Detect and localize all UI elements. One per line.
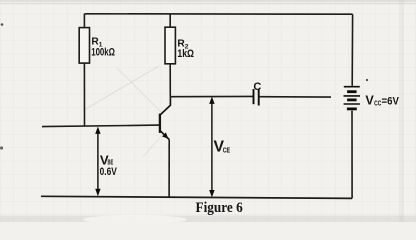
wire: R2 top lead <box>169 14 171 27</box>
wire: bottom rail <box>41 196 352 198</box>
wire: emitter to bottom rail <box>168 140 170 198</box>
svg-text:Figure 6: Figure 6 <box>196 200 243 216</box>
battery VCC (3 cells) <box>344 87 361 109</box>
wire: R1 top lead <box>83 14 85 28</box>
measurement arrow VCE (double-headed) <box>209 97 214 198</box>
svg-text:0.6V: 0.6V <box>100 166 118 178</box>
wire: top supply rail <box>84 13 352 15</box>
wire: right rail from top to battery positive <box>351 14 353 86</box>
wire: base wire <box>42 125 160 127</box>
resistor R1 <box>79 28 89 64</box>
svg-text:CE: CE <box>223 145 230 154</box>
measurement arrow VBE (double-headed) <box>95 127 100 197</box>
wire: collector node to capacitor <box>170 95 253 97</box>
wire: capacitor to output <box>259 96 331 98</box>
wire: R1 bottom lead to base node <box>83 63 85 126</box>
svg-text:=6V: =6V <box>382 96 399 108</box>
wire: battery negative to bottom rail <box>351 111 353 199</box>
svg-text:100kΩ: 100kΩ <box>91 46 115 58</box>
svg-text:1kΩ: 1kΩ <box>177 48 194 60</box>
resistor R2 <box>165 27 175 64</box>
wire: R2 bottom lead to collector node <box>169 64 171 97</box>
svg-text:V: V <box>365 94 374 108</box>
capacitor C <box>254 89 259 106</box>
transistor Q1 (NPN) <box>160 97 171 140</box>
svg-text:C: C <box>253 81 261 93</box>
